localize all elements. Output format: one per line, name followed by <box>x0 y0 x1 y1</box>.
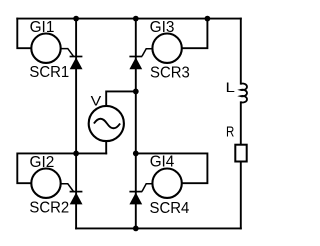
svg-text:GI4: GI4 <box>150 154 175 171</box>
svg-text:SCR4: SCR4 <box>150 200 190 217</box>
thyristor SCR4 <box>129 184 189 217</box>
thyristor SCR2 <box>29 184 82 217</box>
junction dot top-left leg <box>73 16 79 22</box>
svg-text:SCR1: SCR1 <box>29 64 69 81</box>
junction dot bottom right leg <box>133 226 139 232</box>
wire top rail <box>17 18 241 20</box>
resistor R <box>226 125 247 162</box>
inductor L <box>226 79 248 102</box>
wire right leg <box>135 19 137 229</box>
gate drive GI1 <box>30 19 61 63</box>
svg-text:GI1: GI1 <box>30 19 55 36</box>
wire right rail middle <box>240 102 242 143</box>
wire right rail lower <box>240 163 242 229</box>
wire GI4 loop <box>136 153 208 183</box>
junction dot top-right leg <box>133 16 139 22</box>
gate drive GI3 <box>150 19 182 63</box>
junction dot V top <box>133 89 139 95</box>
wire GI3 loop <box>182 19 208 49</box>
junction dot top GI3 loop <box>205 16 211 22</box>
wire GI1 loop <box>17 19 31 49</box>
gate drive GI4 <box>150 154 182 198</box>
wire V source bottom stub <box>105 141 107 153</box>
svg-text:L: L <box>226 79 236 95</box>
wire V source top stub <box>106 91 136 106</box>
svg-text:SCR3: SCR3 <box>150 64 190 81</box>
junction dot mid right leg <box>133 151 139 157</box>
gate drive GI2 <box>30 154 61 198</box>
svg-text:V: V <box>91 93 102 109</box>
wire bottom rail <box>76 227 241 229</box>
svg-text:GI2: GI2 <box>30 154 55 171</box>
svg-text:R: R <box>226 125 234 141</box>
wire right rail upper <box>240 19 242 84</box>
wire mid horizontal with GI2 loop <box>17 153 106 183</box>
svg-text:GI3: GI3 <box>150 19 175 36</box>
svg-text:SCR2: SCR2 <box>29 200 69 217</box>
thyristor SCR1 <box>29 49 82 82</box>
thyristor SCR3 <box>129 49 189 82</box>
junction dot mid left leg <box>73 151 79 157</box>
wire left leg <box>75 19 77 229</box>
AC source V <box>89 93 124 141</box>
